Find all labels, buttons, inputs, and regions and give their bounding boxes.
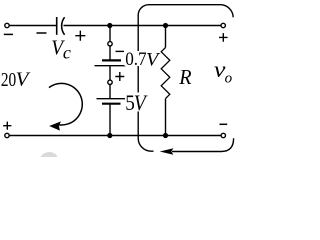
terminal bottom-right: [221, 133, 225, 137]
plus sign above bottom-left terminal: [3, 122, 11, 130]
wire: [109, 85, 111, 99]
bottom wire: [9, 135, 221, 137]
wire: [109, 104, 111, 136]
annotation arrow along bottom pointing left: [172, 138, 234, 151]
minus sign above bottom-right terminal: [220, 123, 228, 125]
battery 0.7V short thick plate: [102, 59, 121, 61]
terminal bottom-left: [5, 133, 9, 137]
capacitor left plate: [56, 17, 58, 35]
plus label of 5V battery: [115, 72, 124, 81]
battery 5V short thick plate: [102, 103, 121, 105]
wire: [64, 25, 222, 27]
wire: [165, 99, 167, 136]
wire: [165, 26, 167, 48]
wire: [109, 46, 111, 60]
wire: [109, 66, 111, 80]
node A junction dot (top, battery branch): [107, 23, 112, 28]
annotation path from + output terminal over top and down (KVL path): [138, 5, 233, 152]
svg-text:R: R: [178, 65, 191, 89]
junction dot bottom resistor branch: [163, 133, 168, 138]
open node between batteries: [108, 80, 112, 84]
svg-text:0.7: 0.7: [125, 49, 146, 70]
terminal top-right: [221, 23, 225, 27]
arrowhead of bottom annotation arrow: [160, 148, 174, 155]
loop arrowhead: [49, 121, 61, 130]
terminal top-left: [5, 23, 9, 27]
battery 5V long plate: [97, 98, 126, 100]
top wire: [9, 25, 56, 27]
minus label of 0.7V battery: [116, 50, 125, 52]
label 0.7V (white background hides annotation line): [125, 51, 160, 66]
capacitor C: minus label left of plates: [37, 32, 47, 34]
watermark circle: [39, 152, 59, 172]
junction dot bottom battery branch: [107, 133, 112, 138]
minus sign below top-left terminal: [4, 33, 13, 35]
wire: [109, 26, 111, 42]
label 5V (white background hides annotation line): [125, 93, 148, 112]
battery 0.7V long plate: [95, 65, 126, 67]
node B junction dot (top, resistor branch): [163, 23, 168, 28]
plus sign below top-right terminal: [219, 33, 228, 42]
svg-text:c: c: [63, 42, 71, 62]
20V source loop arrow (clockwise): [49, 83, 82, 125]
capacitor curved plate: [62, 17, 65, 35]
open node above 0.7V battery: [108, 42, 112, 46]
capacitor plus label right of plates: [75, 31, 85, 41]
svg-text:o: o: [225, 70, 233, 86]
svg-text:20: 20: [1, 69, 16, 91]
resistor R zigzag: [161, 48, 170, 99]
